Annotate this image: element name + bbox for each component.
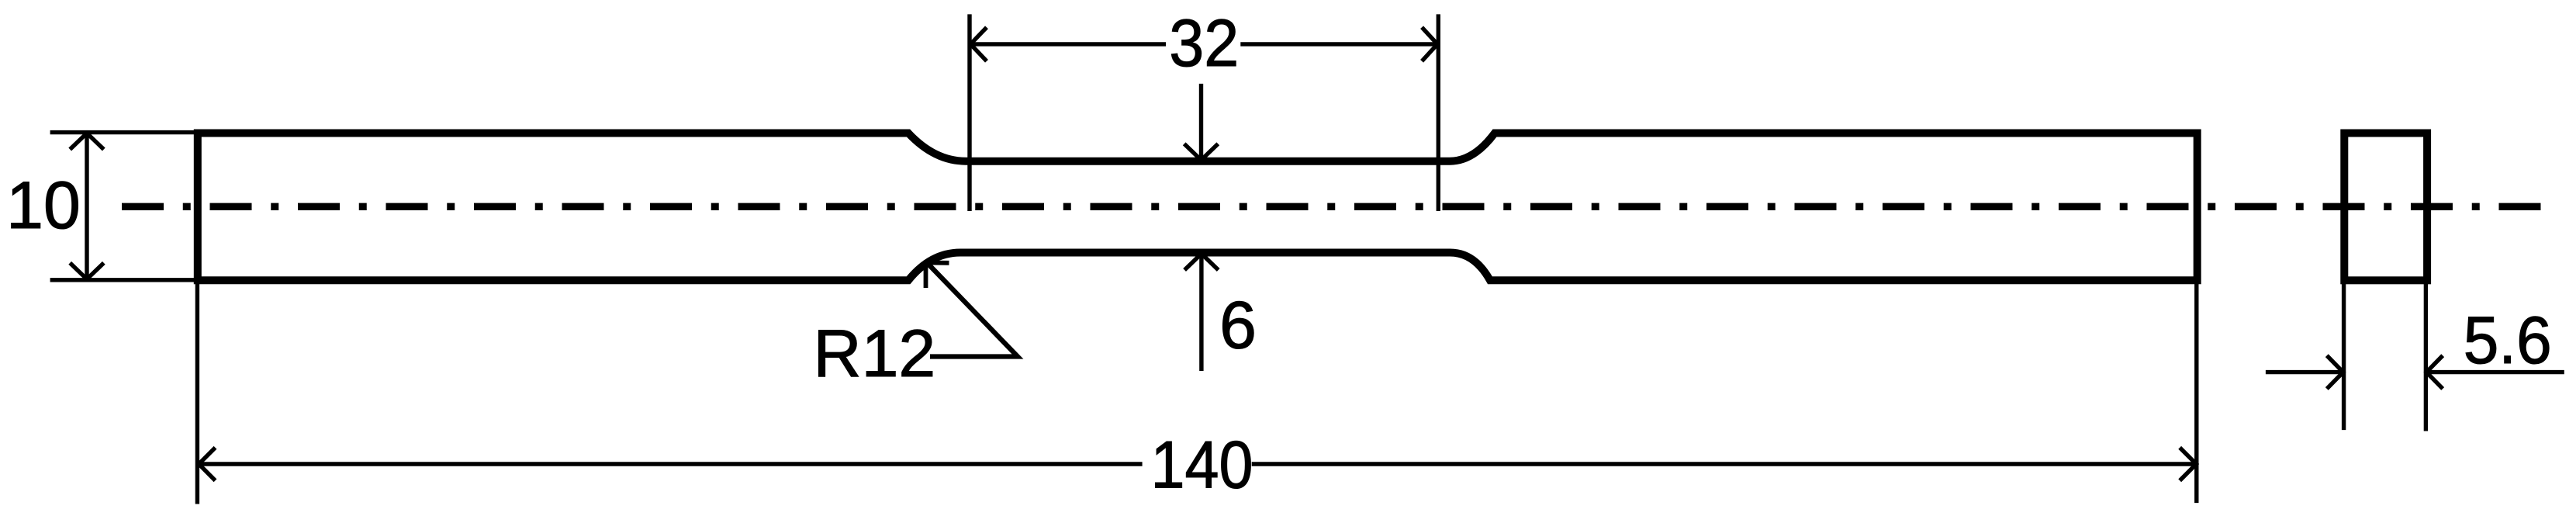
dimension 5.6: left arrow line [2266,370,2344,374]
svg-text:32: 32 [1169,6,1239,81]
dimension 10: extension lines [50,130,199,134]
dimension 140: right arrow [2180,448,2196,481]
centerline (dash-dot axis) [122,203,2542,210]
dimension 32: left arrow [970,27,987,61]
dimension 5.6: right arrow pointing left [2426,355,2443,389]
fillet radius R12: arrowhead barbs [926,263,949,289]
svg-text:R12: R12 [814,317,936,391]
dimension 140: dimension line left segment [198,462,1143,466]
fillet radius R12: leader shaft [927,263,1018,357]
dimension 10: arrow down [70,263,104,279]
dimension 5.6: extension lines [2342,284,2346,430]
dimension 5.6: right dimension line under text [2426,370,2564,374]
dimension 140: dimension line right segment [1252,462,2197,466]
svg-text:6: 6 [1219,289,1257,363]
dimension 6: upper pointer line [1199,84,1203,159]
dimension 5.6: left arrow pointing right [2327,355,2343,389]
dimension 32: dimension line left segment [970,42,1166,46]
dimension 140: left arrow [199,448,215,481]
dimension 32: extension lines [967,14,971,211]
specimen front view outline [198,133,2197,281]
dimension 140: extension lines [195,282,199,504]
cross-section view rectangle [2344,133,2427,281]
dimension 32: dimension line right segment [1240,42,1438,46]
svg-text:10: 10 [6,168,81,243]
dimension 6: lower pointer line [1199,255,1203,371]
dimension 10: arrow up [70,133,104,150]
dimension 6: lower arrow pointing up [1184,254,1219,270]
svg-text:5.6: 5.6 [2464,303,2552,378]
dimension 6: upper arrow pointing down [1184,144,1219,160]
dimension 32: right arrow [1422,27,1437,61]
svg-text:140: 140 [1151,428,1253,502]
dimension 10: dimension line [85,133,88,280]
